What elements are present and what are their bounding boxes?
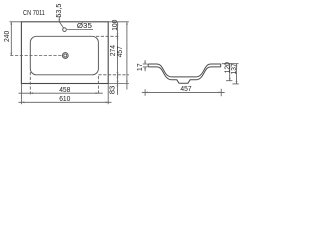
svg-text:83: 83 <box>110 86 117 95</box>
section profile (side view): top/inner line <box>148 64 221 77</box>
outer rect (plan view washbasin top) <box>21 22 108 84</box>
faucet hole <box>63 28 67 32</box>
svg-text:17: 17 <box>137 63 144 71</box>
svg-text:458: 458 <box>59 87 70 94</box>
svg-text:610: 610 <box>59 96 70 103</box>
dimension 240 (left) <box>10 22 22 56</box>
bottom extension lines <box>21 72 108 104</box>
svg-text:137: 137 <box>231 63 238 74</box>
dimension 457 (plan view right) <box>126 22 128 90</box>
dimension 610 (overall width) <box>19 101 112 103</box>
right side extension lines <box>96 22 129 84</box>
basin inner bowl (rounded rect) <box>30 36 98 75</box>
dashed centerline through drain <box>10 55 62 57</box>
dimension 120 (bowl depth) <box>229 64 231 81</box>
svg-text:100: 100 <box>112 20 119 31</box>
svg-text:53,5: 53,5 <box>56 3 63 17</box>
dimension 458 (basin width) <box>19 92 103 94</box>
svg-text:457: 457 <box>117 46 124 57</box>
svg-text:CN 7011: CN 7011 <box>23 8 45 17</box>
chain dimension line (100/274/83) <box>117 22 119 95</box>
dimension 457 (section width) <box>142 89 225 96</box>
profile end caps <box>147 64 149 67</box>
right view extension lines <box>222 64 239 84</box>
drain (double circle) <box>62 53 68 59</box>
dimension 53,5 (faucet hole offset) <box>58 16 63 28</box>
svg-text:457: 457 <box>180 86 191 93</box>
dimension 137 (overall height) <box>236 64 238 84</box>
label Ø35 with leader <box>67 29 93 31</box>
svg-text:240: 240 <box>4 31 11 42</box>
dimension 17 (rim thickness) <box>143 60 148 71</box>
svg-text:Ø35: Ø35 <box>77 23 92 30</box>
section profile: bottom/outer shell line with drain boss <box>148 67 221 83</box>
